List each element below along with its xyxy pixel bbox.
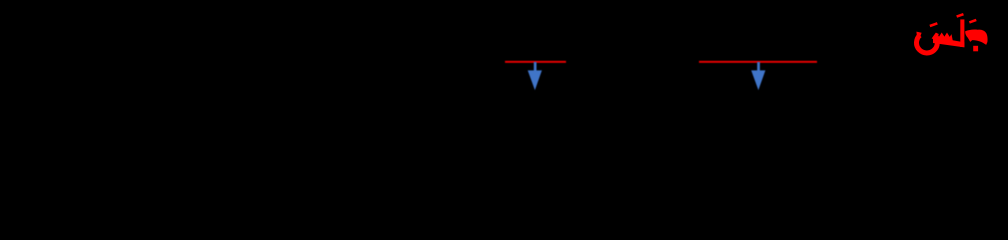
red underline 2 [699,61,817,63]
jeem dot [973,46,978,52]
seen bowl right arm [932,33,939,40]
seen bowl left tip flick [916,32,921,37]
blue down arrow 2 [751,62,765,90]
jeem head [965,29,987,44]
seen teeth and baseline [933,33,964,48]
red underline 1 [505,61,566,63]
lam vertical bar [960,19,964,47]
fatha over lam [956,13,964,18]
fatha over seen [929,22,937,27]
blue down arrow 1 [528,62,542,90]
Arabic word jalasa (red) top right [916,13,987,53]
seen bowl [916,35,937,53]
fatha over jeem [969,19,977,24]
